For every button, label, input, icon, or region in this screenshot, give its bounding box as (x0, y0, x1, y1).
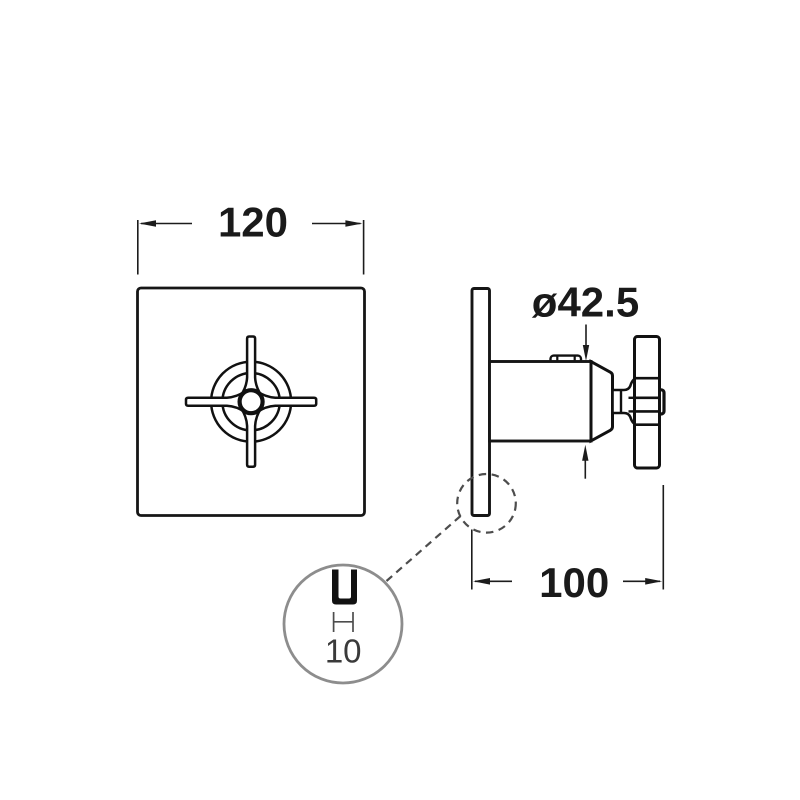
side view wall plate (edge-on) (472, 289, 490, 516)
detail dimension 10 marker (334, 612, 353, 632)
handle bar section line 4 (635, 423, 660, 426)
dimension 100 line right with arrow (623, 580, 660, 582)
cross handle vertical arm (241, 337, 261, 467)
neck ridge line (620, 390, 622, 413)
plate cross-section U profile (332, 570, 357, 605)
hub cap stub top (629, 397, 637, 399)
dashed leader line (387, 516, 461, 581)
hub cap stub bottom (629, 410, 637, 412)
detail reference dashed circle (457, 474, 516, 533)
dimension 120 extension line left (137, 220, 139, 275)
handle bar section line 2 (635, 396, 660, 399)
handle hub circle (240, 390, 263, 413)
handle bar section line 1 (635, 377, 660, 380)
handle outer circle (211, 362, 291, 442)
tapered cone section (591, 362, 613, 441)
dimension 120 line left with arrow (141, 223, 192, 225)
handle bar section line 3 (635, 410, 660, 413)
cross handle horizontal arm (186, 392, 316, 412)
dimension 100 extension line left (471, 530, 473, 590)
svg-text:10: 10 (325, 632, 362, 669)
dimension 100 line left with arrow (475, 580, 512, 582)
dimension 100 extension line right (662, 485, 664, 590)
detail circle (284, 565, 402, 683)
dimension 120 extension line right (363, 220, 365, 275)
hub neck and flare (613, 378, 637, 424)
ø42.5 bottom arrow (584, 458, 586, 479)
handle middle circle (222, 373, 279, 430)
handle bar (edge-on) (635, 337, 660, 469)
front plate (square escutcheon) (138, 288, 365, 516)
far cross-arm end cap (behind handle bar) (657, 390, 665, 414)
retaining clip on body top (551, 356, 582, 363)
svg-text:100: 100 (539, 559, 609, 606)
ø42.5 top arrow (585, 325, 587, 349)
valve body cylinder (490, 362, 592, 442)
dimension 120 line right with arrow (312, 223, 361, 225)
svg-text:120: 120 (218, 198, 288, 245)
svg-text:ø42.5: ø42.5 (532, 278, 639, 325)
